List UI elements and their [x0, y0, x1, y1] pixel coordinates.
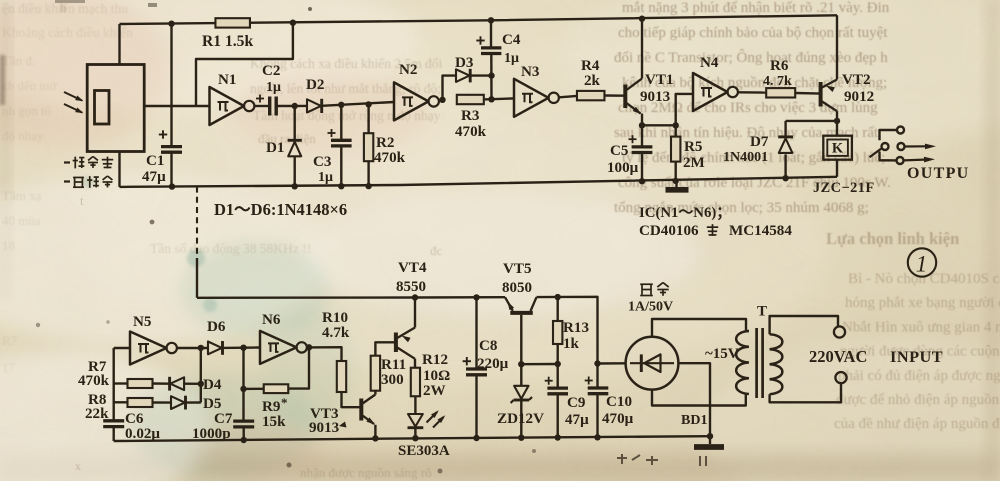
svg-text:2k: 2k	[584, 73, 601, 89]
svg-text:220VAC: 220VAC	[809, 347, 867, 366]
svg-text:D6: D6	[207, 319, 226, 335]
svg-text:D3: D3	[455, 55, 474, 71]
svg-text:VT4: VT4	[398, 260, 427, 276]
svg-text:N1: N1	[218, 72, 236, 88]
svg-text:N2: N2	[399, 62, 417, 78]
svg-text:OUTPU: OUTPU	[907, 165, 970, 182]
svg-text:2M: 2M	[683, 155, 705, 171]
svg-text:1N4001: 1N4001	[723, 150, 768, 165]
svg-text:R1 1.5k: R1 1.5k	[202, 33, 253, 50]
svg-text:470k: 470k	[374, 150, 406, 166]
svg-text:1A/50V: 1A/50V	[628, 300, 673, 315]
svg-text:9012: 9012	[844, 89, 874, 105]
svg-text:~15V: ~15V	[705, 346, 739, 362]
svg-text:R11: R11	[381, 357, 406, 373]
svg-text:C5: C5	[610, 143, 628, 159]
svg-text:R12: R12	[422, 352, 448, 368]
svg-text:47μ: 47μ	[565, 412, 589, 428]
svg-text:470k: 470k	[455, 124, 487, 140]
svg-text:15k: 15k	[262, 414, 286, 430]
svg-text:1000p: 1000p	[192, 426, 231, 442]
svg-text:N6: N6	[262, 312, 281, 328]
svg-text:R2: R2	[376, 135, 394, 151]
svg-text:N4: N4	[700, 55, 719, 71]
svg-text:10Ω: 10Ω	[423, 368, 450, 384]
svg-text:300: 300	[381, 372, 404, 388]
svg-text:R9: R9	[262, 399, 280, 415]
svg-text:C6: C6	[125, 411, 144, 427]
svg-text:D1～D6:1N4148×6: D1～D6:1N4148×6	[214, 200, 347, 219]
svg-text:C9: C9	[567, 395, 585, 411]
svg-text:C3: C3	[313, 154, 332, 170]
svg-text:INPUT: INPUT	[890, 347, 943, 366]
svg-text:9013: 9013	[640, 89, 671, 105]
svg-text:D7: D7	[750, 134, 769, 150]
svg-text:D5: D5	[203, 396, 221, 412]
svg-text:470μ: 470μ	[602, 411, 634, 427]
svg-text:4.7k: 4.7k	[322, 325, 350, 341]
svg-text:R13: R13	[563, 320, 589, 336]
svg-text:D1: D1	[266, 140, 284, 156]
svg-text:8550: 8550	[396, 279, 426, 295]
svg-text:1μ: 1μ	[318, 170, 333, 185]
svg-text:VT2: VT2	[842, 72, 871, 88]
svg-text:N5: N5	[133, 314, 151, 330]
svg-text:JZC−21F: JZC−21F	[813, 180, 875, 196]
svg-text:VT1: VT1	[645, 72, 674, 88]
svg-text:BD1: BD1	[681, 413, 707, 428]
svg-text:100μ: 100μ	[607, 160, 639, 176]
svg-text:2W: 2W	[423, 383, 446, 399]
svg-text:220μ: 220μ	[477, 356, 509, 372]
svg-text:R5: R5	[684, 139, 702, 155]
svg-text:D2: D2	[306, 77, 324, 93]
svg-text:SE303A: SE303A	[398, 443, 450, 459]
svg-text:N3: N3	[521, 64, 540, 80]
svg-text:1: 1	[916, 252, 928, 277]
svg-text:12V: 12V	[518, 411, 544, 427]
svg-text:*: *	[281, 395, 288, 410]
svg-text:1k: 1k	[563, 336, 580, 352]
svg-text:D4: D4	[203, 377, 222, 393]
svg-text:470k: 470k	[78, 373, 110, 389]
svg-text:R4: R4	[581, 58, 600, 74]
svg-text:VT5: VT5	[503, 261, 532, 277]
svg-text:CD40106: CD40106	[639, 223, 699, 239]
svg-text:8050: 8050	[502, 280, 532, 296]
svg-text:22k: 22k	[85, 406, 109, 422]
svg-text:4. 7k: 4. 7k	[763, 74, 792, 89]
svg-text:47μ: 47μ	[142, 169, 166, 185]
svg-text:C1: C1	[146, 153, 164, 169]
svg-text:K: K	[832, 141, 844, 157]
svg-text:R6: R6	[770, 58, 789, 74]
svg-text:1μ: 1μ	[504, 51, 519, 66]
svg-text:C7: C7	[214, 411, 233, 427]
svg-text:T: T	[757, 304, 767, 320]
svg-text:9013: 9013	[309, 420, 340, 436]
svg-text:C4: C4	[502, 32, 521, 48]
svg-text:R10: R10	[322, 310, 348, 326]
svg-text:0.02μ: 0.02μ	[125, 426, 160, 442]
svg-text:ZD: ZD	[497, 411, 518, 427]
svg-text:IC(N1～N6)；: IC(N1～N6)；	[639, 205, 731, 221]
svg-text:C10: C10	[606, 394, 632, 410]
svg-text:MC14584: MC14584	[729, 223, 792, 239]
svg-text:R3: R3	[461, 108, 480, 124]
svg-text:1μ: 1μ	[266, 80, 281, 95]
svg-text:C2: C2	[262, 63, 280, 79]
svg-text:C8: C8	[479, 338, 498, 354]
